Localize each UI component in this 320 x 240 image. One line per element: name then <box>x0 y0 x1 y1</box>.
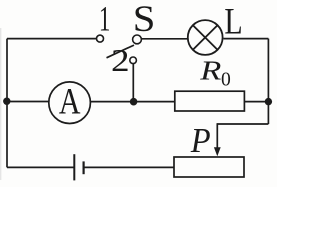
battery cell <box>74 154 83 180</box>
wire: left border vertical <box>6 39 8 168</box>
svg-text:R: R <box>199 55 221 85</box>
switch contact 1 terminal <box>97 35 104 42</box>
svg-text:2: 2 <box>111 44 130 79</box>
wire: S to lamp <box>141 38 188 40</box>
node: junction dot on left border <box>3 98 10 105</box>
wire: right border turn to wiper <box>217 123 268 125</box>
switch blade (open) <box>107 45 135 58</box>
svg-text:A: A <box>59 82 81 123</box>
resistor R0 <box>175 91 245 111</box>
ammeter A <box>49 82 91 124</box>
wire: lamp to top-right corner <box>223 38 268 40</box>
svg-text:1: 1 <box>99 0 111 39</box>
switch contact 2 terminal <box>130 57 137 64</box>
switch S pole terminal <box>133 35 142 44</box>
wire: contact 2 down to middle wire <box>132 64 134 102</box>
wire: battery to rheostat <box>84 166 174 168</box>
rheostat P <box>174 157 244 177</box>
wire: top-left horizontal to contact 1 <box>7 38 96 40</box>
wire: R0 to right border <box>244 101 268 103</box>
lamp L <box>188 20 223 55</box>
node: junction dot on right border <box>265 98 272 105</box>
svg-text:L: L <box>224 2 242 43</box>
wire: ammeter to R0 <box>91 101 176 103</box>
wire: middle left segment to ammeter <box>7 101 49 103</box>
svg-text:0: 0 <box>221 70 231 91</box>
svg-text:P: P <box>190 122 211 160</box>
wire: right border vertical <box>267 39 269 124</box>
svg-text:S: S <box>133 0 156 40</box>
wiper arrow of P <box>214 123 221 156</box>
wire: bottom-left to battery <box>7 166 74 168</box>
node: junction dot below contact 2 <box>130 98 138 106</box>
